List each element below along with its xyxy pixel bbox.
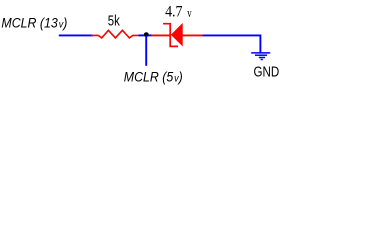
net label GND bbox=[254, 65, 280, 81]
wire from MCLR(13v) label to resistor bbox=[59, 34, 93, 36]
junction dot at node MCLR(5v) bbox=[144, 32, 149, 37]
svg-text:4.7: 4.7 bbox=[165, 4, 182, 21]
net label MCLR (5v) bbox=[124, 69, 183, 84]
zener diode 4.7v : triangle body (anode) bbox=[171, 24, 182, 46]
value label 4.7 bbox=[165, 4, 182, 21]
zener diode 4.7v : cathode bar with zener bends bbox=[164, 24, 177, 47]
svg-text:MCLR (5v): MCLR (5v) bbox=[124, 69, 183, 84]
value label unit v bbox=[187, 6, 192, 20]
svg-text:GND: GND bbox=[254, 65, 280, 81]
ground symbol bbox=[251, 53, 270, 60]
wire from diode anode to ground bbox=[203, 35, 261, 53]
value label 5k bbox=[108, 13, 121, 29]
wire stub down from junction to MCLR(5v) label bbox=[145, 35, 147, 65]
resistor 5k bbox=[92, 30, 139, 38]
svg-text:5k: 5k bbox=[108, 13, 121, 29]
svg-text:MCLR (13v): MCLR (13v) bbox=[1, 15, 67, 30]
zener diode 4.7v : anode pin bbox=[182, 34, 203, 36]
svg-text:v: v bbox=[187, 6, 192, 20]
wire from resistor to diode (through junction) bbox=[139, 34, 152, 36]
net label MCLR (13v) bbox=[1, 15, 67, 30]
zener diode 4.7v : cathode pin bbox=[152, 34, 170, 36]
